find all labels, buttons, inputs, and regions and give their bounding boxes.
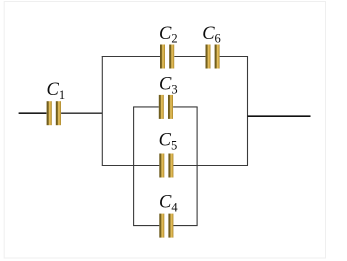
wire C3 branch segment right of C3 [173, 106, 198, 108]
wire top branch segment left of C2 [102, 56, 160, 58]
wire C5 branch segment left of C5 [102, 165, 160, 167]
capacitor C1 [47, 101, 61, 125]
wire C4 branch segment right of C4 [173, 225, 197, 227]
wire left terminal lead [19, 112, 47, 114]
wire C4 branch segment left of C4 [133, 225, 159, 227]
wire top branch segment right of C6 [220, 56, 248, 58]
capacitor C5 [159, 154, 173, 178]
wire inner left vertical [133, 107, 135, 226]
wire outer right vertical [247, 56, 249, 166]
wire C5 branch segment right of C5 [173, 165, 248, 167]
wire top branch segment between C2 and C6 [174, 56, 205, 58]
wire right terminal lead [248, 115, 311, 117]
wire inner right vertical [196, 107, 198, 226]
wire C3 branch segment left of C3 [133, 106, 159, 108]
capacitor C3 [159, 95, 173, 119]
wire C1 to left node [61, 112, 102, 114]
capacitor C4 [159, 214, 173, 238]
wire outer left vertical [101, 56, 103, 166]
capacitor C2 [160, 45, 174, 69]
capacitor C6 [206, 45, 220, 69]
